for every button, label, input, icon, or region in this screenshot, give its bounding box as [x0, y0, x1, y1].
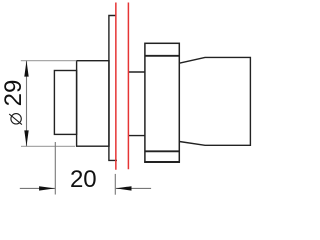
- 20 right arrow: [116, 186, 132, 190]
- 20 left extension line: [54, 142, 56, 195]
- dia 29 label: [0, 80, 27, 125]
- 20 right extension line: [114, 174, 116, 195]
- dia 29 up arrow: [24, 61, 28, 77]
- panel front surface (red): [115, 3, 117, 170]
- panel rear surface (red): [127, 3, 129, 170]
- switch body bottom divider: [145, 150, 179, 152]
- dia 29 dimension line: [26, 61, 28, 146]
- rear housing block: [179, 57, 250, 145]
- mounting flange: [109, 16, 117, 161]
- svg-text:29: 29: [0, 80, 27, 107]
- bezel ring: [77, 61, 109, 147]
- barrel top line: [128, 71, 145, 73]
- switch body bottom edge (thick): [144, 161, 180, 163]
- barrel bottom line: [128, 135, 145, 137]
- 20 left arrow: [39, 186, 55, 190]
- svg-text:20: 20: [70, 166, 97, 193]
- dia 29 bottom extension line: [21, 145, 75, 147]
- 20 dimension line left part: [20, 187, 55, 189]
- 20 dimension line right part: [116, 187, 151, 189]
- switch body top divider: [145, 55, 179, 57]
- dia 29 top extension line: [21, 60, 77, 62]
- button cap: [54, 71, 76, 135]
- dia 29 down arrow: [24, 130, 28, 146]
- switch body front block: [145, 43, 179, 162]
